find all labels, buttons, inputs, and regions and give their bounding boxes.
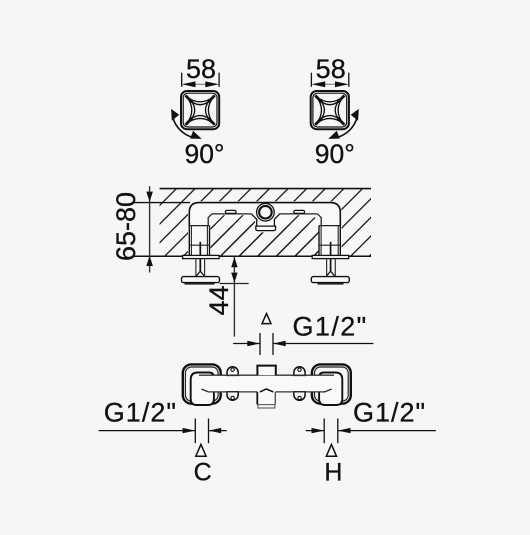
wall bottom line (134, 255, 371, 257)
G1/2 mid ticks (259, 333, 261, 355)
ear bottom-right white arch (294, 392, 305, 401)
G1/2 left arrow b (209, 428, 222, 433)
left base plate (183, 255, 220, 258)
slot right (294, 210, 305, 213)
left pin (199, 242, 201, 272)
H triangle (326, 444, 336, 456)
ear bottom-left white arch (227, 392, 238, 401)
G1/2 right ticks (323, 419, 325, 444)
G1/2 mid arrow right (273, 341, 286, 346)
G1/2 right arrow a (312, 428, 325, 433)
pipe inner top line right part (318, 214, 322, 226)
svg-text:58: 58 (186, 54, 216, 84)
rotation arc right (337, 118, 357, 138)
slot left (225, 210, 236, 213)
G1/2 left dim line (99, 430, 196, 432)
44 arrow up (231, 257, 237, 267)
ear screw circles (231, 368, 234, 371)
spout chevron (260, 389, 273, 392)
svg-text:C: C (194, 459, 212, 487)
44 arrow down (231, 273, 237, 283)
left diagonal (202, 389, 210, 392)
right flange (311, 277, 349, 283)
pipe outline (189, 203, 340, 226)
tube white (205, 375, 328, 392)
right leg box (319, 225, 340, 227)
65-80 arrow down (146, 192, 153, 202)
svg-text:90°: 90° (184, 139, 224, 169)
pipe inner top line left part (208, 214, 212, 226)
wall top line (160, 188, 371, 190)
right diagonal (324, 389, 332, 392)
G1/2 left tail line (209, 430, 227, 432)
spout white (257, 389, 275, 405)
right stem (326, 259, 328, 277)
44 dim vline (233, 256, 235, 336)
svg-text:H: H (324, 459, 342, 487)
spout right edge (274, 392, 276, 405)
G1/2 mid triangle (262, 314, 271, 324)
left escutcheon (191, 373, 214, 406)
G1/2 mid arrow left (247, 341, 260, 346)
left leg box (189, 225, 209, 227)
right pin (330, 242, 332, 272)
G1/2 right arrow b (338, 428, 351, 433)
svg-text:G1/2": G1/2" (353, 398, 426, 428)
port tab white pad (249, 214, 283, 222)
spout bottom (257, 404, 275, 406)
center bump (257, 366, 275, 376)
ear top-left white arch (227, 367, 238, 376)
65-80 top ref line (134, 202, 190, 204)
svg-text:G1/2": G1/2" (293, 312, 368, 342)
65-80 arrow up (146, 256, 153, 266)
port circle inner (259, 206, 272, 219)
svg-text:58: 58 (316, 54, 346, 84)
knob left (181, 91, 219, 129)
body white silhouette (189, 203, 340, 256)
left knob inner border (185, 367, 218, 401)
left knob outer (183, 364, 221, 403)
right escutcheon (319, 373, 342, 406)
svg-text:G1/2": G1/2" (104, 398, 177, 428)
left flange (182, 277, 220, 283)
rotation arc left (173, 118, 193, 138)
spout left edge (256, 392, 258, 405)
tube top line (199, 374, 334, 376)
knob right (311, 91, 349, 129)
left flange shadow (185, 283, 215, 285)
left stem (195, 259, 197, 277)
svg-text:90°: 90° (315, 139, 355, 169)
C triangle (196, 444, 206, 456)
port circle outer (257, 203, 275, 221)
port tab outline with chamfers (251, 214, 279, 226)
G1/2 left ticks (194, 419, 196, 444)
right knob inner border (315, 367, 349, 401)
G1/2 mid dim line right (273, 343, 374, 345)
65-80 dim vline (149, 186, 151, 272)
right knob outer (312, 364, 351, 403)
44 ref line (220, 283, 249, 285)
G1/2 left arrow a (183, 428, 196, 433)
svg-text:44: 44 (204, 285, 234, 315)
svg-text:65-80: 65-80 (111, 192, 141, 261)
port lip (256, 226, 276, 231)
spout lip (258, 405, 275, 408)
dim 58 left: ticks and arrows (182, 73, 219, 87)
right flange shadow (318, 283, 344, 285)
G1/2 mid dim line left (233, 343, 260, 345)
ear top-right white arch (294, 367, 305, 376)
right base plate (312, 255, 349, 258)
G1/2 right lead line (306, 430, 325, 432)
tube bottom line segments (209, 391, 257, 393)
G1/2 right dim line (338, 430, 436, 432)
